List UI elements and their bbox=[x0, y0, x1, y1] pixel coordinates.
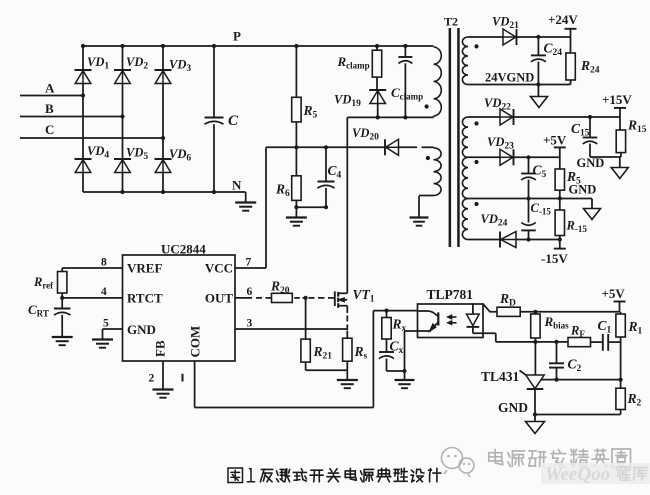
svg-text:R1: R1 bbox=[628, 319, 643, 337]
svg-text:24VGND: 24VGND bbox=[485, 71, 534, 85]
svg-text:+24V: +24V bbox=[548, 12, 578, 27]
svg-text:5: 5 bbox=[103, 318, 109, 330]
svg-text:CRT: CRT bbox=[28, 302, 49, 319]
svg-text:Rclamp: Rclamp bbox=[337, 54, 370, 71]
svg-text:C-15: C-15 bbox=[531, 201, 552, 217]
svg-text:VT1: VT1 bbox=[353, 287, 375, 305]
svg-text:Cx: Cx bbox=[390, 339, 404, 357]
svg-text:4: 4 bbox=[101, 286, 107, 298]
svg-text:+5V: +5V bbox=[602, 286, 626, 301]
svg-text:P: P bbox=[233, 29, 241, 44]
svg-text:C5: C5 bbox=[533, 163, 547, 181]
svg-text:+15V: +15V bbox=[602, 92, 632, 107]
svg-text:C: C bbox=[228, 113, 239, 129]
svg-text:Rs: Rs bbox=[354, 344, 368, 362]
svg-text:TL431: TL431 bbox=[481, 369, 520, 384]
svg-text:Rbias: Rbias bbox=[544, 314, 570, 331]
svg-text:WeeQoo: WeeQoo bbox=[545, 464, 610, 485]
svg-text:VD24: VD24 bbox=[481, 212, 508, 229]
svg-text:R20: R20 bbox=[270, 279, 290, 297]
svg-text:RF: RF bbox=[570, 324, 585, 340]
svg-text:VCC: VCC bbox=[205, 261, 233, 276]
svg-text:VD1: VD1 bbox=[87, 55, 109, 72]
svg-text:VD6: VD6 bbox=[169, 147, 191, 164]
svg-text:6: 6 bbox=[247, 286, 253, 298]
svg-text:B: B bbox=[45, 101, 54, 116]
svg-text:RTCT: RTCT bbox=[127, 291, 163, 306]
svg-text:VD19: VD19 bbox=[334, 93, 361, 110]
svg-text:C2: C2 bbox=[568, 357, 582, 375]
svg-text:FB: FB bbox=[153, 340, 168, 357]
svg-text:R6: R6 bbox=[275, 182, 290, 200]
svg-text:GND: GND bbox=[498, 400, 528, 415]
svg-text:C24: C24 bbox=[544, 41, 563, 59]
svg-text:2: 2 bbox=[149, 373, 155, 385]
svg-text:GND: GND bbox=[577, 156, 605, 170]
svg-text:C15: C15 bbox=[571, 121, 590, 139]
svg-text:Rref: Rref bbox=[33, 275, 54, 291]
svg-text:VD4: VD4 bbox=[87, 144, 109, 161]
svg-text:COM: COM bbox=[188, 326, 203, 358]
svg-text:+5V: +5V bbox=[543, 133, 567, 148]
svg-text:VREF: VREF bbox=[127, 261, 162, 276]
svg-text:UC2844: UC2844 bbox=[161, 242, 206, 257]
svg-text:R2: R2 bbox=[627, 391, 642, 409]
svg-text:N: N bbox=[232, 178, 242, 193]
svg-text:-15V: -15V bbox=[541, 251, 568, 266]
svg-text:VD20: VD20 bbox=[352, 126, 379, 143]
svg-text:R-15: R-15 bbox=[566, 219, 588, 235]
svg-text:GND: GND bbox=[127, 322, 156, 337]
svg-text:R24: R24 bbox=[580, 58, 600, 76]
svg-text:TLP781: TLP781 bbox=[427, 287, 474, 302]
svg-text:C1: C1 bbox=[598, 318, 612, 336]
svg-text:RD: RD bbox=[499, 291, 516, 309]
svg-text:R5: R5 bbox=[303, 103, 318, 121]
svg-text:Cclamp: Cclamp bbox=[391, 85, 423, 102]
svg-text:C4: C4 bbox=[328, 163, 342, 181]
svg-text:GND: GND bbox=[569, 183, 597, 197]
svg-text:VD21: VD21 bbox=[492, 15, 519, 32]
svg-text:8: 8 bbox=[101, 257, 107, 269]
svg-text:C: C bbox=[45, 122, 54, 137]
svg-text:A: A bbox=[45, 81, 55, 96]
svg-text:VD3: VD3 bbox=[169, 58, 191, 75]
svg-text:7: 7 bbox=[246, 257, 252, 269]
svg-text:VD2: VD2 bbox=[126, 55, 148, 72]
svg-text:OUT: OUT bbox=[205, 291, 234, 306]
svg-text:R21: R21 bbox=[313, 344, 333, 362]
svg-text:T2: T2 bbox=[444, 15, 458, 29]
svg-text:R15: R15 bbox=[627, 118, 647, 136]
svg-text:3: 3 bbox=[247, 318, 253, 330]
svg-text:VD22: VD22 bbox=[484, 96, 511, 113]
